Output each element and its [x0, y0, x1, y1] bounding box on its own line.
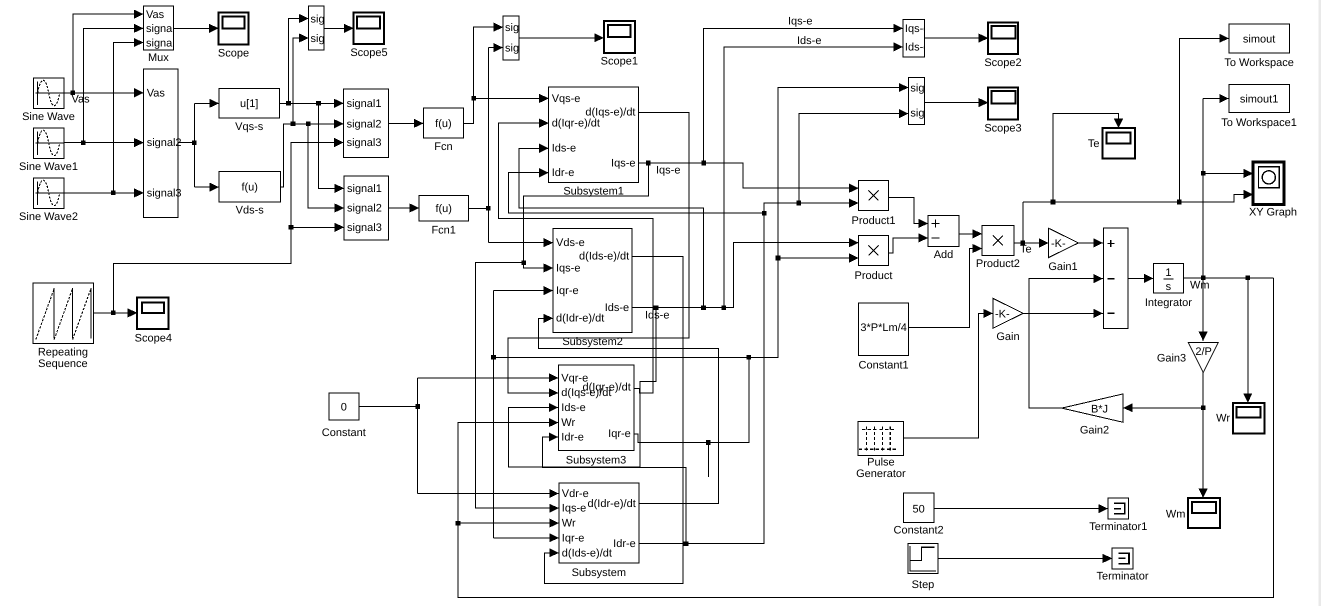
- svg-text:d(Ids-e)/dt: d(Ids-e)/dt: [579, 251, 629, 263]
- wire Mux to Scope: [173, 24, 218, 33]
- product block Product: [855, 235, 893, 282]
- svg-text:Te: Te: [1020, 244, 1032, 256]
- svg-text:50: 50: [912, 503, 924, 515]
- wire Pulse Generator to Gain: [904, 309, 993, 438]
- sink block Terminator: [1097, 548, 1149, 583]
- mux block Mux6: [903, 19, 929, 57]
- svg-text:XY Graph: XY Graph: [1249, 206, 1297, 218]
- svg-text:Fcn1: Fcn1: [431, 225, 455, 237]
- gain block Gain2: [1062, 394, 1123, 436]
- svg-text:Sine Wave2: Sine Wave2: [19, 211, 78, 223]
- source block Sine Wave1: [19, 128, 78, 173]
- svg-text:1: 1: [1165, 267, 1171, 279]
- source block Sine Wave2: [19, 178, 78, 223]
- svg-text:d(Iqs-e)/dt: d(Iqs-e)/dt: [585, 107, 635, 119]
- svg-text:Wm: Wm: [1166, 509, 1186, 521]
- wire Vqs-s output to Mux2/Mux5/Mux3: [280, 14, 345, 193]
- scope block Scope2: [984, 22, 1021, 69]
- svg-text:signal1: signal1: [347, 98, 382, 110]
- svg-text:Vas: Vas: [146, 9, 165, 21]
- wire Step to Terminator: [938, 554, 1112, 563]
- wire Sum1 to Integrator: [1128, 274, 1153, 283]
- mux block Mux3: [344, 176, 389, 240]
- svg-text:Vds-s: Vds-s: [236, 205, 265, 217]
- svg-text:-K-: -K-: [995, 309, 1010, 321]
- wire Sine Wave2 to Mux1 and Mux: [64, 38, 144, 198]
- svg-text:Wr: Wr: [561, 417, 575, 429]
- scope block Scope4: [135, 297, 172, 344]
- wire Wm feedback bus to Wr inputs: [456, 278, 1274, 598]
- svg-text:Product1: Product1: [851, 215, 895, 227]
- wire Fcn1 output Vds-e to Subsystem2 and Mux4: [469, 43, 554, 247]
- svg-text:Add: Add: [934, 249, 954, 261]
- svg-text:Scope3: Scope3: [984, 123, 1021, 135]
- svg-text:Scope2: Scope2: [984, 57, 1021, 69]
- svg-text:Ids-e: Ids-e: [552, 143, 576, 155]
- svg-text:Gain2: Gain2: [1080, 424, 1109, 436]
- product block Product2: [976, 225, 1020, 270]
- svg-text:signal2: signal2: [347, 118, 382, 130]
- wire Vds-s output to Mux2/Mux5/Mux3: [281, 33, 345, 212]
- svg-text:Step: Step: [912, 579, 935, 591]
- svg-text:d(Idr-e)/dt: d(Idr-e)/dt: [556, 313, 604, 325]
- scope block Scope5: [350, 13, 387, 60]
- svg-text:Te: Te: [1088, 138, 1100, 150]
- wire Constant to Vqr-e and Vdr-e: [359, 373, 559, 498]
- constant block Constant2: [894, 493, 944, 536]
- svg-text:signal2: signal2: [347, 203, 382, 215]
- scope block XY Graph: [1249, 162, 1297, 219]
- wire Ids-e net from Subsystem2: [509, 35, 903, 467]
- fcn block Fcn: [423, 108, 463, 153]
- mux block Mux1 (3-phase): [144, 69, 182, 218]
- source block Sine Wave: [22, 78, 75, 123]
- wire Te net from Product2: [1014, 34, 1253, 256]
- wire d(Idr-e)/dt net from Subsystem to Subsystem2: [538, 314, 718, 504]
- svg-text:d(Idr-e)/dt: d(Idr-e)/dt: [588, 498, 636, 510]
- svg-text:Constant2: Constant2: [894, 524, 944, 536]
- source block Step: [908, 543, 938, 591]
- integrator block Integrator: [1145, 263, 1192, 308]
- svg-text:Wr: Wr: [1216, 412, 1230, 424]
- gain block Gain1: [1048, 228, 1078, 273]
- svg-text:Idr-e: Idr-e: [561, 431, 584, 443]
- svg-text:d(Ids-e)/dt: d(Ids-e)/dt: [562, 547, 612, 559]
- svg-text:Subsystem: Subsystem: [572, 567, 626, 579]
- svg-text:Terminator: Terminator: [1097, 571, 1149, 583]
- mux block Mux: [143, 6, 180, 64]
- svg-text:2/P: 2/P: [1195, 346, 1212, 358]
- svg-text:Iqs-e: Iqs-e: [611, 157, 635, 169]
- sink block To Workspace1: [1221, 84, 1297, 129]
- svg-text:Scope1: Scope1: [601, 56, 638, 68]
- wire Repeating Sequence to Scope4 and Mux2/Mux3: [93, 138, 344, 318]
- mux block Mux4: [503, 16, 540, 60]
- wire Mux4 to Scope1: [519, 33, 604, 42]
- svg-text:Gain1: Gain1: [1048, 261, 1077, 273]
- display block Te scope: [1088, 128, 1135, 158]
- svg-text:signal1: signal1: [347, 183, 382, 195]
- svg-text:Idr-e: Idr-e: [613, 538, 636, 550]
- svg-text:Ids-e: Ids-e: [605, 302, 629, 314]
- scope block Scope: [218, 12, 249, 59]
- svg-text:simout: simout: [1243, 33, 1275, 45]
- svg-text:Subsystem3: Subsystem3: [566, 454, 627, 466]
- wire Integrator output Wm: [1184, 276, 1274, 292]
- svg-text:B*J: B*J: [1091, 403, 1108, 415]
- svg-text:u[1]: u[1]: [240, 98, 258, 110]
- svg-text:f(u): f(u): [435, 203, 452, 215]
- mux block Mux7: [908, 78, 945, 125]
- svg-text:Iqs-e: Iqs-e: [656, 165, 680, 177]
- wire Mux5 to Scope5: [324, 24, 354, 33]
- svg-text:Vqs-s: Vqs-s: [235, 121, 264, 133]
- svg-text:Idr-e: Idr-e: [552, 167, 575, 179]
- svg-text:signal2: signal2: [147, 137, 182, 149]
- svg-text:signal3: signal3: [147, 187, 182, 199]
- wire Product1 to Add: [889, 198, 929, 228]
- window right edge: [1319, 0, 1321, 606]
- wire d(Iqs-e)/dt net from Subsystem1 to Subsystem3: [508, 113, 689, 398]
- svg-text:Product: Product: [855, 270, 893, 282]
- svg-text:Ids-e: Ids-e: [561, 402, 585, 414]
- display block Wr scope: [1216, 403, 1264, 434]
- subsystem block Subsystem1: [549, 87, 639, 197]
- svg-text:Vqs-e: Vqs-e: [552, 93, 581, 105]
- svg-text:signal3: signal3: [347, 137, 382, 149]
- gain block Gain: [993, 298, 1023, 343]
- svg-text:Ids-e: Ids-e: [645, 310, 669, 322]
- svg-text:Gain: Gain: [996, 331, 1019, 343]
- sink block Terminator1: [1089, 498, 1147, 533]
- scope block Scope3: [984, 87, 1021, 134]
- source block Repeating Sequence: [33, 283, 93, 370]
- wire Gain1 to Sum1: [1078, 238, 1103, 247]
- wire Mux6 to Scope2: [924, 34, 988, 43]
- product block Product1: [851, 180, 895, 227]
- svg-text:Generator: Generator: [856, 468, 906, 480]
- svg-text:Ids-e: Ids-e: [797, 35, 821, 47]
- svg-text:Iqr-e: Iqr-e: [608, 428, 631, 440]
- wire Product to Add: [889, 233, 929, 253]
- svg-text:Scope: Scope: [218, 48, 249, 60]
- wire Add to Product2: [959, 229, 982, 238]
- svg-text:Vas: Vas: [72, 93, 91, 105]
- sink block To Workspace: [1224, 24, 1294, 69]
- fcn block Vds-s: [219, 172, 281, 217]
- wire Fcn output Vqs-e to Subsystem1 and Mux4: [464, 23, 549, 124]
- svg-text:Sequence: Sequence: [38, 358, 88, 370]
- fcn block Fcn1: [419, 196, 469, 237]
- wire Vas: Sine Wave to Mux1 and Mux: [64, 10, 144, 106]
- svg-text:Gain3: Gain3: [1157, 353, 1186, 365]
- svg-text:Scope5: Scope5: [350, 47, 387, 59]
- svg-text:Pulse: Pulse: [867, 457, 895, 469]
- svg-text:Wm: Wm: [1190, 280, 1210, 292]
- svg-text:To Workspace1: To Workspace1: [1221, 117, 1297, 129]
- svg-text:Repeating: Repeating: [38, 347, 88, 359]
- scope block Scope1: [601, 21, 638, 68]
- svg-text:3*P*Lm/4: 3*P*Lm/4: [860, 322, 906, 334]
- wire Gain3 output to Gain2 and Wm scope: [1123, 373, 1208, 499]
- svg-text:Vds-e: Vds-e: [556, 237, 585, 249]
- wire Constant1 to Product2: [909, 244, 982, 328]
- svg-text:Scope4: Scope4: [135, 333, 172, 345]
- wire Mux7 to Scope3: [924, 98, 988, 107]
- svg-text:f(u): f(u): [241, 182, 258, 194]
- subsystem block Subsystem2: [553, 229, 632, 348]
- svg-text:-K-: -K-: [1051, 238, 1066, 250]
- svg-text:Sine Wave: Sine Wave: [22, 111, 75, 123]
- svg-text:d(Iqr-e)/dt: d(Iqr-e)/dt: [583, 381, 631, 393]
- display block Wm scope: [1166, 498, 1220, 528]
- wire d(Ids-e)/dt net from Subsystem2 to Subsystem: [544, 256, 683, 583]
- svg-text:f(u): f(u): [435, 118, 452, 130]
- svg-text:To Workspace: To Workspace: [1224, 57, 1294, 69]
- source block Pulse Generator: [856, 421, 906, 480]
- mux block Mux5: [309, 6, 346, 50]
- constant block Constant: [322, 393, 366, 439]
- svg-text:Iqs-e: Iqs-e: [562, 503, 586, 515]
- wire d(Iqr-e)/dt net from Subsystem3 to Subsystem1: [499, 119, 654, 394]
- subsystem block Subsystem: [559, 483, 639, 579]
- svg-text:Constant1: Constant1: [859, 359, 909, 371]
- svg-text:Mux: Mux: [148, 52, 169, 64]
- subsystem block Subsystem3: [558, 365, 634, 466]
- wire Mux3 to Fcn1: [389, 203, 420, 212]
- wire Gain2 output to Sum1: [1029, 274, 1103, 408]
- svg-text:Constant: Constant: [322, 427, 366, 439]
- svg-text:0: 0: [341, 401, 347, 413]
- svg-text:Integrator: Integrator: [1145, 297, 1192, 309]
- svg-text:Wr: Wr: [562, 518, 576, 530]
- svg-text:Iqr-e: Iqr-e: [556, 285, 579, 297]
- svg-text:Sine Wave1: Sine Wave1: [19, 161, 78, 173]
- svg-text:Vdr-e: Vdr-e: [562, 488, 589, 500]
- svg-text:Vas: Vas: [147, 87, 166, 99]
- svg-text:d(Iqr-e)/dt: d(Iqr-e)/dt: [552, 118, 600, 130]
- svg-text:Iqs-e: Iqs-e: [556, 262, 580, 274]
- wire Iqr-e net from Subsystem3: [491, 83, 908, 543]
- svg-text:simout1: simout1: [1240, 94, 1279, 106]
- svg-text:signal3: signal3: [347, 222, 382, 234]
- wire Wm to Wr scope: [1243, 278, 1252, 403]
- wire Mux1 to Vqs-s and Vds-s: [178, 99, 219, 192]
- wire Idr-e net from Subsystem: [509, 109, 909, 546]
- wire Gain output to Sum1: [1023, 309, 1103, 318]
- mux block Mux2: [344, 89, 389, 158]
- wire Iqs-e net from Subsystem1: [476, 16, 903, 513]
- wire Sine Wave1 to Mux1 and Mux: [64, 24, 144, 148]
- wire Constant2 to Terminator1: [934, 504, 1108, 513]
- svg-text:s: s: [1166, 281, 1172, 293]
- fcn block Vqs-s: [219, 89, 280, 133]
- svg-text:Product2: Product2: [976, 258, 1020, 270]
- svg-text:Terminator1: Terminator1: [1089, 521, 1147, 533]
- wire Wm to To Workspace1 XY Graph and Gain3: [1199, 94, 1254, 341]
- svg-text:Iqr-e: Iqr-e: [562, 532, 585, 544]
- svg-text:Fcn: Fcn: [434, 141, 452, 153]
- constant block Constant1: [859, 303, 909, 372]
- sum block Add: [928, 215, 959, 261]
- svg-text:Iqs-e: Iqs-e: [788, 16, 812, 28]
- gain block Gain3: [1157, 342, 1218, 372]
- wire Mux2 to Fcn: [389, 119, 424, 128]
- sum block Sum1: [1103, 228, 1128, 328]
